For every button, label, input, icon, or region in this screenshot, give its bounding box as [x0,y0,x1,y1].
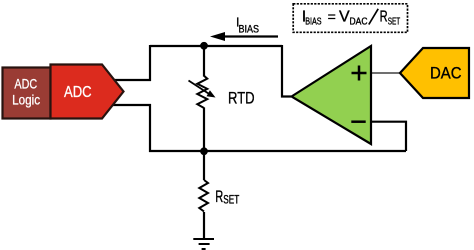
svg-text:ADC: ADC [14,77,37,92]
svg-text:RTD: RTD [228,90,255,108]
current arrow I_BIAS [221,35,278,37]
wire: op-amp output vertical [282,45,291,97]
ground [193,239,214,249]
wire: RTD bottom lead [203,108,205,152]
formula box: I_BIAS = V_DAC/R_SET [293,4,407,33]
wire: plus input to DAC [372,72,400,74]
wire: top rail [150,45,282,47]
block DAC [400,48,469,98]
svg-text:ADC: ADC [64,84,92,101]
svg-text:R: R [215,188,223,206]
wire: left vertical upper (ADC top to top rail) [149,45,151,81]
wire: Rset top lead [203,151,205,180]
svg-text:=: = [328,9,336,25]
svg-text:BIAS: BIAS [239,23,260,35]
svg-text:Logic: Logic [12,92,40,107]
node: junction top [200,42,208,50]
node: junction bottom [200,147,208,155]
op-amp [292,46,372,144]
block ADC Logic [3,68,51,119]
wire: Rset bottom lead to ground [203,212,205,238]
svg-text:DAC: DAC [430,65,462,83]
wire: ADC bottom output [113,104,151,106]
wire: left vertical lower (ADC bottom to bottom rail) [149,104,151,152]
op-amp non-inverting input marker (+) [352,66,367,81]
wire: feedback from minus input [370,122,406,151]
svg-text:SET: SET [388,17,401,28]
op-amp inverting input marker (-) [351,120,365,123]
svg-text:SET: SET [223,194,239,206]
svg-text:V: V [339,9,350,26]
svg-text:BIAS: BIAS [305,16,322,27]
wire: ADC top output [113,79,151,81]
resistor R_SET (zigzag) [199,180,208,212]
svg-text:DAC: DAC [350,17,368,28]
svg-text:R: R [380,9,388,26]
wire: RTD top lead [203,46,205,77]
resistor RTD (zigzag with arrow) [189,76,216,108]
block ADC (arrow) [51,65,124,119]
wire: bottom rail [149,150,406,152]
